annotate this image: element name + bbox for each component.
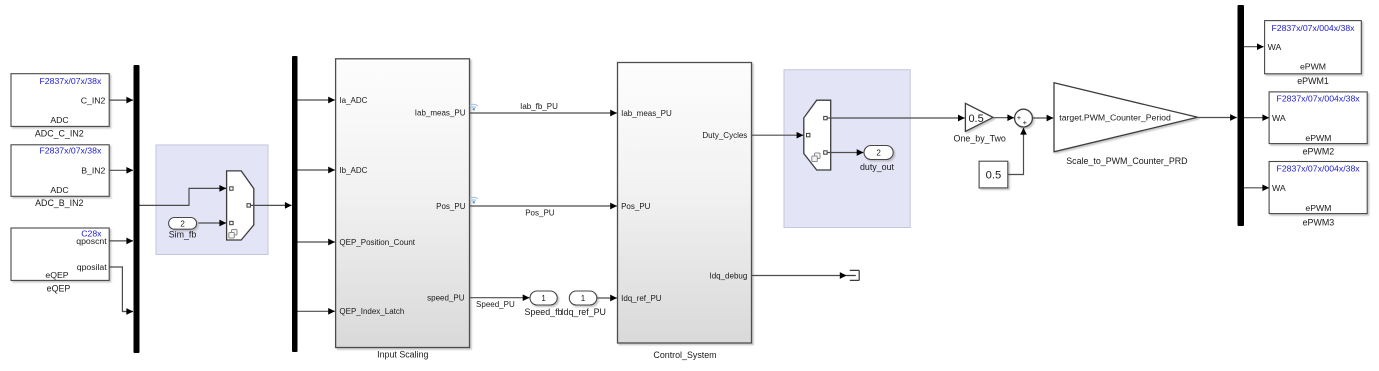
block ePWM2 bbox=[1269, 92, 1367, 156]
svg-text:Iab_meas_PU: Iab_meas_PU bbox=[415, 109, 466, 118]
svg-text:B_IN2: B_IN2 bbox=[81, 166, 105, 176]
svg-text:0.5: 0.5 bbox=[968, 113, 983, 125]
wire constant to sum bbox=[1008, 128, 1024, 175]
svg-text:eQEP: eQEP bbox=[45, 270, 68, 280]
svg-text:ePWM: ePWM bbox=[1305, 203, 1331, 213]
svg-text:WA: WA bbox=[1268, 42, 1282, 52]
wire Sim_fb to variant source bbox=[198, 222, 226, 224]
svg-text:F2837x/07x/38x: F2837x/07x/38x bbox=[39, 146, 101, 156]
svg-text:Speed_PU: Speed_PU bbox=[476, 300, 515, 309]
svg-text:ADC: ADC bbox=[50, 115, 68, 125]
variant sink block bbox=[804, 100, 831, 170]
svg-text:qposcnt: qposcnt bbox=[76, 236, 107, 246]
wire B_IN2 to bus1 bbox=[109, 169, 133, 171]
svg-text:WA: WA bbox=[1272, 183, 1286, 193]
wire qposcnt to bus1 bbox=[109, 240, 133, 242]
svg-text:Ia_ADC: Ia_ADC bbox=[339, 96, 367, 105]
variant area right bbox=[784, 70, 910, 228]
block eQEP bbox=[11, 228, 109, 293]
svg-text:QEP_Position_Count: QEP_Position_Count bbox=[339, 238, 415, 247]
wire variant source to bus2 bbox=[251, 204, 292, 206]
svg-text:One_by_Two: One_by_Two bbox=[954, 134, 1006, 144]
svg-text:Input Scaling: Input Scaling bbox=[377, 350, 428, 360]
svg-text:Idq_ref_PU: Idq_ref_PU bbox=[621, 294, 662, 303]
svg-text:speed_PU: speed_PU bbox=[427, 294, 465, 303]
gain Scale_to_PWM_Counter_PRD bbox=[1054, 83, 1198, 166]
wire Pos_PU to Control_System bbox=[470, 206, 617, 217]
svg-text:eQEP: eQEP bbox=[47, 283, 71, 293]
svg-text:Scale_to_PWM_Counter_PRD: Scale_to_PWM_Counter_PRD bbox=[1066, 156, 1187, 166]
constant 0.5 bbox=[979, 161, 1008, 188]
outport Speed_fb bbox=[524, 291, 562, 317]
bus bar 2 bbox=[292, 56, 298, 352]
svg-text:ADC: ADC bbox=[50, 185, 68, 195]
svg-text:ePWM3: ePWM3 bbox=[1303, 218, 1335, 228]
svg-text:0.5: 0.5 bbox=[986, 170, 1002, 182]
logging badge Iab bbox=[470, 104, 478, 110]
outport duty_out bbox=[860, 146, 895, 173]
block ADC_C_IN2 bbox=[11, 74, 109, 139]
svg-text:Pos_PU: Pos_PU bbox=[436, 202, 466, 211]
wire qposilat to bus1 bbox=[109, 267, 133, 312]
svg-text:C_IN2: C_IN2 bbox=[81, 95, 106, 105]
wire Idq_ref_PU to Control_System bbox=[597, 297, 617, 299]
svg-text:target.PWM_Counter_Period: target.PWM_Counter_Period bbox=[1059, 112, 1171, 122]
svg-text:duty_out: duty_out bbox=[860, 162, 895, 172]
svg-text:Speed_fb: Speed_fb bbox=[524, 307, 562, 317]
wire bus2 to Ia_ADC bbox=[298, 99, 335, 101]
svg-text:1: 1 bbox=[541, 294, 546, 303]
svg-text:Sim_fb: Sim_fb bbox=[169, 230, 197, 240]
svg-text:Duty_Cycles: Duty_Cycles bbox=[702, 131, 747, 140]
svg-text:F2837x/07x/004x/38x: F2837x/07x/004x/38x bbox=[1271, 23, 1355, 33]
terminator bbox=[846, 270, 859, 280]
svg-text:ADC_C_IN2: ADC_C_IN2 bbox=[35, 129, 84, 139]
svg-text:ADC_B_IN2: ADC_B_IN2 bbox=[35, 198, 83, 208]
wire sum to scale gain bbox=[1032, 117, 1053, 119]
svg-text:WA: WA bbox=[1272, 113, 1286, 123]
sum block bbox=[1015, 109, 1033, 127]
svg-text:2: 2 bbox=[876, 148, 881, 157]
svg-text:F2837x/07x/38x: F2837x/07x/38x bbox=[39, 76, 101, 86]
svg-text:+: + bbox=[1017, 113, 1022, 122]
wire bus2 to QEP_Index_Latch bbox=[298, 310, 335, 312]
wire Idq_debug to terminator bbox=[752, 275, 847, 277]
svg-text:ePWM2: ePWM2 bbox=[1303, 146, 1335, 156]
wire duty to duty_out bbox=[827, 152, 863, 154]
gain One_by_Two bbox=[954, 103, 1006, 143]
svg-text:ePWM1: ePWM1 bbox=[1297, 76, 1329, 86]
wire bus2 to QEP_Position_Count bbox=[298, 241, 335, 243]
bus bar 3 bbox=[1238, 5, 1245, 226]
svg-text:Idq_ref_PU: Idq_ref_PU bbox=[561, 307, 606, 317]
svg-text:F2837x/07x/004x/38x: F2837x/07x/004x/38x bbox=[1277, 94, 1361, 104]
wire bus1 to variant source bbox=[140, 188, 227, 205]
svg-text:Ib_ADC: Ib_ADC bbox=[339, 166, 367, 175]
wire C_IN2 to bus1 bbox=[109, 99, 133, 101]
svg-text:F2837x/07x/004x/38x: F2837x/07x/004x/38x bbox=[1277, 164, 1361, 174]
svg-text:2: 2 bbox=[180, 219, 185, 228]
block ADC_B_IN2 bbox=[11, 145, 109, 208]
svg-text:QEP_Index_Latch: QEP_Index_Latch bbox=[339, 307, 404, 316]
wire Duty_Cycles to variant sink bbox=[752, 134, 804, 136]
inport Sim_fb bbox=[169, 218, 197, 240]
wire One_by_Two to sum bbox=[993, 117, 1014, 119]
svg-text:Pos_PU: Pos_PU bbox=[525, 208, 555, 217]
bus bar 1 bbox=[134, 65, 140, 353]
svg-text:Control_System: Control_System bbox=[653, 350, 716, 360]
logging badge Pos bbox=[470, 197, 478, 203]
wire scale gain to bus3 bbox=[1198, 117, 1237, 119]
svg-text:qposilat: qposilat bbox=[77, 262, 108, 272]
svg-text:1: 1 bbox=[581, 294, 586, 303]
svg-text:Iab_fb_PU: Iab_fb_PU bbox=[520, 102, 558, 111]
inport Idq_ref_PU bbox=[561, 291, 606, 317]
wire Iab_meas_PU to Control_System bbox=[470, 102, 617, 113]
svg-text:+: + bbox=[1023, 118, 1028, 127]
block ePWM3 bbox=[1269, 162, 1367, 228]
block ePWM1 bbox=[1265, 21, 1362, 86]
wire bus2 to Ib_ADC bbox=[298, 169, 335, 171]
wire variant sink to One_by_Two bbox=[827, 117, 964, 119]
wire bus3 to ePWM3 bbox=[1244, 187, 1269, 189]
svg-text:ePWM: ePWM bbox=[1305, 133, 1331, 143]
svg-text:Pos_PU: Pos_PU bbox=[621, 202, 651, 211]
svg-text:Idq_debug: Idq_debug bbox=[709, 271, 747, 280]
svg-text:ePWM: ePWM bbox=[1300, 62, 1326, 72]
wire speed_PU to Speed_fb bbox=[470, 298, 530, 310]
subsystem Control_System bbox=[618, 63, 752, 361]
svg-text:Iab_meas_PU: Iab_meas_PU bbox=[621, 109, 672, 118]
subsystem Input Scaling bbox=[336, 59, 470, 360]
variant source block bbox=[227, 171, 254, 240]
variant area left bbox=[156, 145, 268, 255]
wire bus3 to ePWM1 bbox=[1244, 46, 1264, 48]
wire bus3 to ePWM2 bbox=[1244, 117, 1269, 119]
